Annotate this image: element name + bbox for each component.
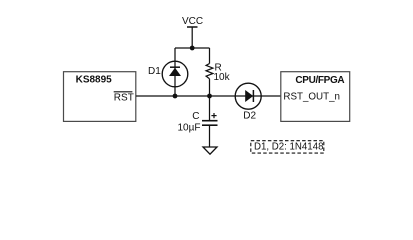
IC U1 KS8895 box <box>64 72 136 122</box>
wire node B through D2 to CPU pin <box>210 95 282 97</box>
wire top rail <box>175 47 210 49</box>
wire VCC stem <box>191 27 193 48</box>
svg-text:RST: RST <box>114 93 134 104</box>
diode D2 (circled, series) <box>235 83 261 109</box>
svg-text:10µF: 10µF <box>178 122 201 133</box>
svg-text:RST_OUT_n: RST_OUT_n <box>283 92 340 103</box>
junction node B <box>207 94 212 99</box>
wire D1 branch <box>174 48 176 96</box>
svg-text:D1: D1 <box>148 66 161 77</box>
svg-text:D2: D2 <box>243 110 256 121</box>
plus polarity mark <box>211 113 216 118</box>
power symbol VCC <box>182 16 203 27</box>
IC U2 CPU/FPGA box <box>281 72 350 122</box>
svg-text:C: C <box>192 111 199 122</box>
wire C to ground <box>209 125 211 147</box>
svg-text:D1, D2: 1N4148: D1, D2: 1N4148 <box>254 142 323 153</box>
pin RST (active low) with overline <box>114 92 134 104</box>
wire C branch <box>209 96 211 120</box>
junction VCC node <box>190 46 195 51</box>
svg-text:10k: 10k <box>214 72 231 83</box>
note box D1 D2 part number <box>251 141 324 153</box>
svg-text:CPU/FPGA: CPU/FPGA <box>295 75 344 86</box>
svg-text:VCC: VCC <box>182 16 203 27</box>
ground symbol <box>203 147 217 154</box>
capacitor C 10uF (polarized) <box>202 121 218 126</box>
resistor R 10k <box>206 48 213 96</box>
wire node A to node B <box>175 95 210 97</box>
svg-text:KS8895: KS8895 <box>76 75 113 86</box>
wire RST net: KS8895 pin to node A <box>136 95 175 97</box>
diode D1 (circled, cathode to VCC) <box>162 61 188 87</box>
junction node A <box>173 94 178 99</box>
